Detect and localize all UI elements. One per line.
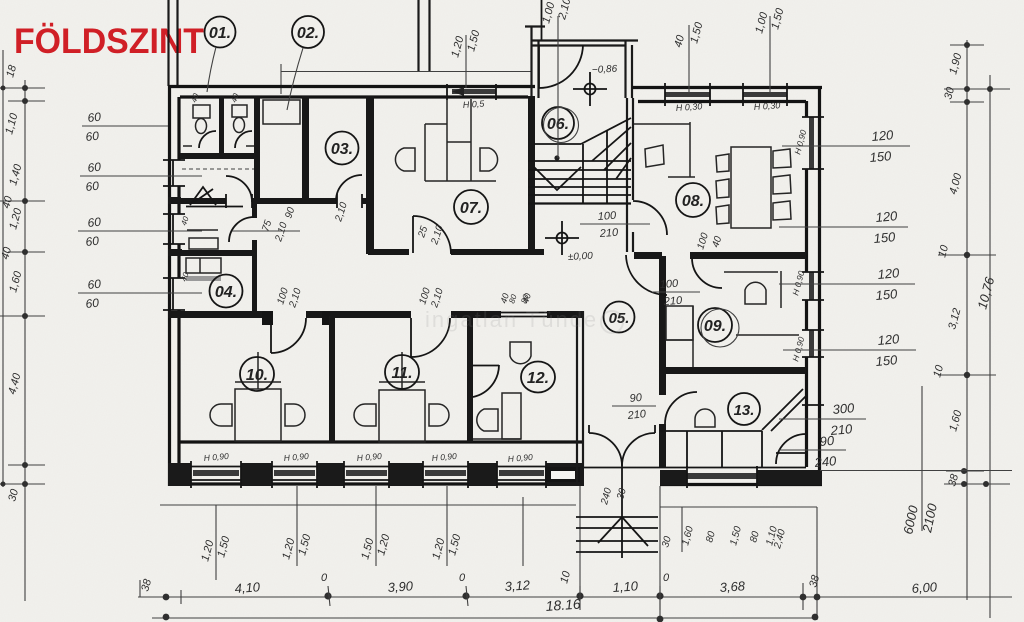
lobby right wall / room08 left wall (627, 98, 633, 252)
right leader 300/210 (779, 400, 866, 438)
dim line A dots (163, 592, 821, 600)
room12 washbasin (510, 342, 531, 364)
room circle 08 (676, 183, 710, 217)
room11 door leaf + arc (411, 318, 450, 357)
door arc storage room04 (229, 217, 254, 242)
wire top wall left outer line (168, 85, 535, 88)
svg-text:±0,00: ±0,00 (568, 251, 594, 263)
room09 bottom / room13 top wall (659, 367, 806, 374)
porch wall upper extension (541, 0, 543, 40)
bottom window band sill lines (168, 467, 584, 481)
room13 shower door arc (776, 434, 806, 464)
left wall outer line (168, 86, 171, 486)
svg-text:6,00: 6,00 (911, 579, 938, 596)
svg-text:150: 150 (873, 229, 897, 246)
room07 door leaf and arc (413, 216, 451, 254)
stair riser dims row (660, 525, 788, 551)
window 2 of room 08 top wall (743, 83, 787, 106)
svg-text:H 0,30: H 0,30 (753, 100, 780, 112)
svg-text:3,90: 3,90 (387, 578, 414, 595)
room13 cubicle verticals (687, 431, 762, 467)
lobby door dim 100/210 (580, 210, 650, 240)
porch left wall (525, 26, 545, 98)
room09 door arc (692, 258, 722, 288)
crosshair benchmark lobby (545, 221, 579, 255)
svg-text:0: 0 (663, 572, 670, 584)
shower tray chevron (190, 187, 216, 205)
entrance door hinge stubs (589, 425, 655, 433)
door arc bath hall 1 (226, 176, 252, 202)
svg-text:60: 60 (85, 179, 100, 194)
room04 right wall (252, 203, 257, 318)
hall top wall y200 with door openings (180, 198, 374, 204)
svg-text:H 0,30: H 0,30 (675, 101, 702, 113)
bottom window jamb ticks (191, 461, 546, 488)
cistern rect cell2 (232, 105, 247, 117)
interior door dim room07 (416, 224, 446, 247)
interior door dim 75/210 hall (260, 219, 290, 244)
room09 desk edge (736, 334, 799, 336)
wire top wall left inner line (180, 95, 528, 98)
storage/room04 divider wall y252 (181, 250, 257, 256)
fence tick (280, 64, 282, 94)
svg-text:120: 120 (875, 208, 899, 225)
right dim chain labels (931, 51, 964, 488)
left wall inner line with window gaps (177, 97, 180, 466)
svg-text:60: 60 (87, 110, 102, 125)
svg-text:01.: 01. (209, 25, 231, 42)
window 1 of room 08 top wall (665, 83, 710, 106)
room circle 06 (542, 107, 579, 143)
bottom window dim extension x216 (199, 505, 232, 580)
right dim chain verticals (967, 40, 990, 618)
room07 right wall / lobby left wall (528, 96, 535, 254)
courtyard gate post (double vertical) (419, 0, 430, 71)
crosshair benchmark porch (573, 72, 607, 106)
room circle 11 (385, 355, 419, 389)
svg-text:60: 60 (87, 277, 102, 292)
svg-text:90: 90 (629, 392, 643, 405)
lobby-corridor door arc (626, 255, 667, 295)
corridor door dims below rooms (275, 286, 446, 310)
svg-text:03.: 03. (331, 141, 353, 158)
room10 chair right (285, 404, 305, 426)
stair start dot (554, 155, 559, 160)
storage bench line (187, 229, 218, 231)
svg-text:0: 0 (321, 572, 328, 584)
left wall window thin bars (172, 160, 174, 310)
storage cabinet (189, 238, 218, 249)
right wall window jamb ticks (802, 117, 824, 405)
exterior ground line right of building (820, 470, 1012, 472)
outdoor steps chevron arrow (598, 466, 648, 558)
sanitary horizontal wall y156 (180, 153, 260, 159)
room10 desk (235, 389, 281, 441)
svg-text:100: 100 (659, 278, 679, 291)
corridor strip right wall / rooms09-13 left wall (659, 256, 666, 467)
entrance double door right leaf (622, 433, 655, 466)
svg-text:210: 210 (598, 227, 619, 240)
room circle 05 (604, 302, 635, 333)
room09 door dim rotated 100/40 (695, 231, 724, 251)
bottom-right block wall (660, 466, 822, 488)
room desks pedestal lines 10 (235, 352, 281, 389)
main bottom dimension line A (138, 596, 1012, 598)
right wall window bars (809, 117, 814, 357)
top wall right inner line (638, 100, 806, 103)
interior door dim room03 (333, 201, 350, 224)
room09 door dim 100/210 (652, 278, 700, 308)
sanitary partition wall B (254, 96, 260, 203)
hall leader line y231 (232, 230, 300, 232)
extension vertical x523 (522, 497, 524, 566)
extension vertical x660 (659, 486, 661, 620)
top wall right outer line (632, 86, 822, 89)
svg-text:120: 120 (871, 127, 895, 144)
door arc WC cell 1 (199, 131, 216, 148)
svg-text:60: 60 (85, 296, 100, 311)
room08 conference table (731, 147, 771, 228)
pavement line bottom right (660, 506, 817, 508)
room08 bottom dim 100/40 (0, 0, 1, 1)
room11 chair left (354, 404, 376, 426)
washbasin marks bath (183, 145, 254, 147)
stair treads (528, 144, 631, 204)
right wall inner line with window gaps (805, 101, 808, 467)
label 240/30 at steps (599, 486, 629, 506)
bottom window dim extension x447 (430, 486, 463, 566)
room08 chairs right column (773, 149, 791, 220)
room circle 07 (454, 190, 488, 224)
svg-text:3,12: 3,12 (504, 577, 531, 594)
left 60/60 leader 3 (78, 215, 202, 249)
svg-text:240: 240 (813, 453, 838, 470)
svg-text:210: 210 (626, 408, 647, 422)
svg-text:60: 60 (85, 129, 100, 144)
svg-text:10.: 10. (246, 367, 268, 384)
stair direction chevron (534, 167, 581, 190)
toilet cell1 (196, 119, 207, 134)
room13 door dim 90/210 (612, 392, 656, 422)
bottom window hatch bars (193, 470, 544, 476)
bathtub room02 (263, 100, 300, 124)
room10 door leaf + arc (271, 318, 306, 353)
svg-text:07.: 07. (460, 200, 482, 217)
extension vertical x682 (681, 507, 683, 552)
partition room03 left wall (302, 96, 309, 198)
extension vertical x580 (579, 486, 581, 597)
bottom window dim extension x376 (359, 486, 392, 566)
corridor top wall stub near lobby (512, 249, 544, 255)
left dim chain ticks and dots (0, 85, 45, 487)
room circle 01 (205, 17, 236, 93)
top dim extension x689 (672, 20, 705, 93)
room circle 12 (521, 362, 555, 393)
svg-text:0: 0 (459, 572, 466, 584)
left 60/60 leader 4 (78, 277, 202, 311)
svg-text:09.: 09. (704, 318, 726, 335)
right window leader 120/150 top (782, 127, 910, 165)
door arc room03 (336, 175, 362, 201)
svg-text:FÖLDSZINT: FÖLDSZINT (14, 22, 204, 61)
porch top wall (531, 41, 638, 46)
black entry step left of entrance (545, 467, 580, 482)
partition rooms 10/11 (329, 316, 335, 442)
svg-text:04.: 04. (215, 284, 237, 301)
boundary wall above building (double vertical) (169, 0, 178, 86)
svg-text:12.: 12. (527, 370, 549, 387)
dashed service line in bath (182, 168, 254, 170)
left 60/60 leader 1 (82, 110, 168, 144)
room13 shower bench (776, 452, 806, 454)
right wall outer line (818, 86, 821, 486)
small 40 labels in bath cells (179, 92, 240, 283)
left 60/60 leader 2 (80, 160, 202, 194)
door arc WC cell 2 (235, 131, 252, 148)
wall junction blocks left (168, 197, 182, 318)
door jamb tick wall y200 (226, 194, 362, 208)
top dim extension x558 (540, 0, 573, 158)
room circle 03 (326, 132, 359, 165)
left dim chain vertical lines (3, 50, 25, 601)
40/40 ticks above room12 window (498, 292, 533, 305)
bottom wall piers (black) (168, 463, 584, 486)
room10 chair left (210, 404, 232, 426)
svg-text:150: 150 (869, 148, 893, 165)
outdoor steps (576, 517, 658, 552)
room07 bottom wall y251 (368, 249, 544, 255)
left dim chain labels (0, 63, 25, 503)
extension vertical x922 (921, 386, 923, 531)
room circle 13 (728, 393, 760, 425)
extension vertical x803 (802, 583, 804, 610)
svg-text:ingatlan Tünde: ingatlan Tünde (425, 307, 598, 332)
small 80/80 labels corridor (507, 293, 530, 305)
room12 corridor window opening (501, 313, 547, 317)
svg-text:100: 100 (597, 210, 617, 223)
room08 door arc from lobby (633, 201, 667, 235)
top dim extension x770 (753, 6, 786, 93)
dim line B dots (163, 614, 819, 622)
courtyard fence line (281, 71, 532, 73)
room13 diagonal hatch (762, 389, 806, 431)
svg-text:300: 300 (832, 400, 856, 417)
right window leader 120/150 a (779, 208, 908, 246)
svg-text:60: 60 (85, 234, 100, 249)
room08 bottom wall y256 (634, 252, 806, 259)
extension vertical x817 (816, 507, 818, 620)
room13 toilet (695, 409, 715, 427)
cistern rect cell1 (193, 105, 210, 118)
svg-text:150: 150 (875, 286, 899, 303)
room07 desk (425, 99, 496, 181)
room09 shelf line (724, 271, 778, 273)
window bar with arrow in top wall (H 0,5) (447, 84, 496, 100)
svg-text:120: 120 (877, 265, 901, 282)
dim line A labels (139, 569, 938, 596)
right window leader 120/150 b (779, 265, 915, 303)
svg-text:−0,86: −0,86 (592, 64, 618, 76)
room04 cabinet (186, 258, 221, 281)
room08 tv trapezoid (645, 145, 664, 167)
room09 chair (745, 282, 766, 304)
left wall window jamb ticks (163, 160, 185, 310)
svg-text:60: 60 (87, 215, 102, 230)
room09 divider line (780, 271, 782, 308)
room07 chair left (395, 148, 415, 171)
porch entry door arc (539, 45, 583, 88)
room13 mid partition (660, 430, 762, 432)
right window leader 120/150 c (783, 331, 916, 369)
room circle 10 (240, 357, 274, 391)
svg-text:18.16: 18.16 (545, 596, 581, 614)
room circle 09 (698, 308, 739, 347)
toilet cell2 (234, 118, 245, 133)
top dim extension x466 (449, 28, 482, 88)
svg-text:60: 60 (87, 160, 102, 175)
right leader 90/240 (779, 433, 846, 470)
bottom wall inner line (rooms 10-12 south face) (180, 440, 584, 443)
label 6000/2100 (900, 501, 940, 535)
svg-text:02.: 02. (297, 25, 319, 42)
room circle 04 (210, 275, 243, 308)
svg-text:H 0,5: H 0,5 (462, 98, 485, 110)
room circle 02 (287, 16, 324, 110)
right dim chain ticks dots (938, 42, 1010, 487)
dim line A tick marks (140, 580, 660, 610)
svg-text:4,10: 4,10 (234, 579, 261, 596)
room12 connecting door (473, 365, 499, 397)
pavement line bottom left (160, 504, 576, 506)
room08 chairs left column (716, 154, 729, 224)
room11 chair right (429, 404, 449, 426)
svg-text:08.: 08. (682, 193, 704, 210)
room12 chair (477, 409, 498, 431)
svg-text:120: 120 (877, 331, 901, 348)
svg-text:1,10: 1,10 (612, 578, 639, 595)
sanitary partition wall A (219, 96, 224, 156)
room desks pedestal lines 11 (379, 352, 425, 390)
corridor bottom wall y314 (180, 311, 584, 318)
bottom window dim extension x297 (280, 486, 313, 566)
partition rooms 03/07 (366, 96, 374, 254)
corridor wall piers (262, 311, 330, 325)
svg-text:90: 90 (819, 433, 835, 449)
room08 interior post lines (668, 122, 695, 177)
room08 nook line (634, 123, 690, 125)
stair hatch triangle (592, 127, 631, 179)
svg-text:150: 150 (875, 352, 899, 369)
interior door dim 90/210 hall (283, 206, 297, 220)
room09 closet (666, 306, 693, 367)
room07 chair right (480, 148, 498, 171)
recessed entrance facade line (584, 467, 806, 469)
room12 desk (473, 393, 521, 439)
svg-text:13.: 13. (734, 402, 755, 419)
room12 right wall / corridor strip left wall (577, 311, 583, 484)
bottom wall outer line (168, 482, 584, 485)
svg-text:210: 210 (662, 295, 683, 308)
bottom dimension line B (152, 617, 817, 619)
room13 door arc (665, 392, 697, 424)
shower tray sides (186, 206, 243, 208)
entrance double door left leaf (589, 433, 622, 466)
watermark ingatlan (425, 307, 623, 333)
stair flight edge diagonal (581, 118, 631, 203)
svg-text:3,68: 3,68 (719, 578, 746, 595)
labels H 0,90 row above bottom windows (203, 451, 533, 464)
partition rooms 11/12 (467, 316, 473, 442)
room11 desk (379, 390, 425, 442)
svg-text:11.: 11. (391, 365, 412, 382)
porch right wall (626, 40, 633, 98)
